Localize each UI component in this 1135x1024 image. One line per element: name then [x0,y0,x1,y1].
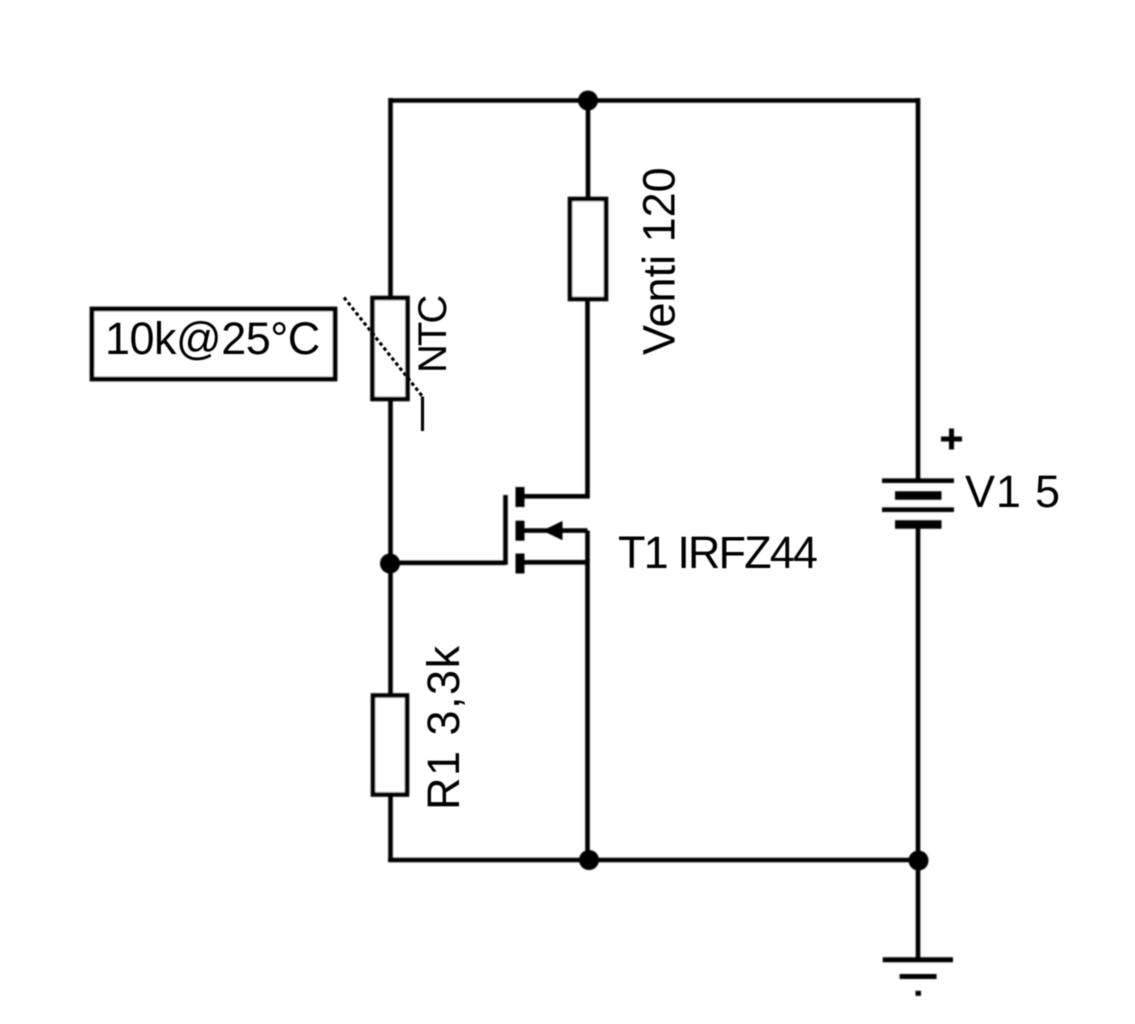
battery V1 plate 1 (long) [882,478,954,483]
thermistor NTC diagonal stroke [344,298,423,432]
transistor T1 gate bar [503,495,508,565]
thermistor NTC body [373,298,408,399]
junction bottom right [909,851,929,871]
wire center column (top junction to fan resistor) [586,101,591,200]
svg-text:Venti 120: Venti 120 [634,167,685,355]
wire top rail [391,98,919,103]
wire left column lower (R1 to bottom rail) [388,795,393,863]
resistor Venti body [570,199,606,299]
svg-text:R1 3,3k: R1 3,3k [418,644,469,810]
ground bar 1 [883,957,953,962]
ground bar 2 [900,974,937,979]
wire bottom rail [388,858,918,863]
wire right column lower (battery to bottom rail) [916,525,921,861]
battery V1 plate 2 (thick short) [895,491,942,500]
svg-text:NTC: NTC [411,296,455,373]
battery V1 plate 4 (thick short) [895,520,942,529]
battery V1 plate 3 (long) [882,507,954,512]
wire source (T1 to bottom rail) [585,531,590,860]
ground bar 3 (dot) [916,991,922,996]
wire left column upper (top rail to NTC) [388,98,393,298]
svg-text:V1 5: V1 5 [965,466,1061,517]
wire drain (fan resistor to T1 drain) [524,299,588,496]
svg-text:T1 IRFZ44: T1 IRFZ44 [618,527,817,578]
wire left column middle (NTC to R1) [388,399,393,696]
battery V1 plus sign [941,429,962,450]
resistor R1 body [373,696,407,795]
junction gate node [380,554,400,574]
transistor T1 source stub [524,560,588,565]
junction top [578,91,598,111]
junction bottom center [579,850,599,870]
transistor T1 channel ticks [516,487,525,574]
value box 10k@25°C [92,309,335,379]
wire ground stem [916,860,921,960]
wire gate (node to T1 gate) [391,560,506,565]
wire right column upper (top rail to battery) [916,98,921,481]
svg-text:10k@25°C: 10k@25°C [105,313,320,364]
transistor T1 body stub with arrow [524,528,588,533]
